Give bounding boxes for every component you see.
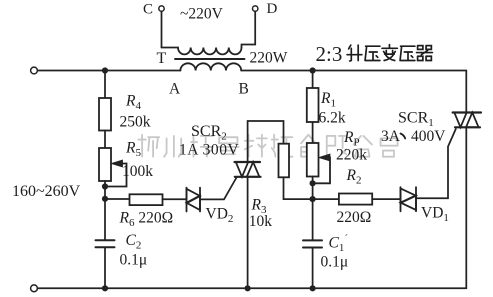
node dot R5 wiper junction	[102, 183, 108, 189]
triac SCR2	[235, 162, 261, 177]
triac SCR1	[453, 113, 481, 128]
resistor R3	[279, 144, 290, 178]
svg-text:R1: R1	[320, 90, 336, 110]
升	[347, 45, 362, 61]
wire: R1 top lead	[312, 71, 314, 89]
svg-text:R6 220Ω: R6 220Ω	[119, 210, 174, 230]
器	[417, 46, 433, 61]
diac VD1	[401, 187, 417, 211]
transformer secondary winding C-D (top)	[162, 48, 242, 55]
wire: R4 top lead	[104, 71, 106, 99]
potentiometer RP wiper arrow	[313, 154, 330, 183]
wire: SCR2 anode up and over to R3	[248, 121, 284, 162]
terminal D	[253, 6, 258, 11]
svg-text:~220V: ~220V	[180, 6, 224, 23]
wire: to R6	[105, 198, 130, 200]
resistor R2	[339, 194, 372, 205]
svg-text:VD2: VD2	[206, 206, 234, 226]
wire: RP bottom to C1	[312, 177, 314, 241]
wire: VD1 to SCR1 gate riser	[416, 129, 456, 198]
input terminal bottom-left	[31, 285, 38, 292]
svg-text:100k: 100k	[122, 163, 153, 180]
wire: bottom rail	[38, 287, 467, 289]
node dot junction R4 top	[102, 67, 108, 73]
resistor R4	[99, 98, 111, 131]
node dot SCR2 bottom rail	[245, 285, 251, 291]
变	[382, 45, 397, 61]
capacitor C2	[96, 240, 115, 247]
svg-text:250k: 250k	[120, 114, 151, 131]
svg-text:6.2k: 6.2k	[319, 110, 346, 127]
transformer core	[175, 58, 245, 60]
wire: C1 bottom lead	[312, 248, 314, 289]
svg-text:B: B	[239, 81, 249, 98]
resistor R1	[307, 88, 319, 122]
svg-text:D: D	[267, 1, 278, 17]
potentiometer R5 wiper arrow	[105, 160, 127, 186]
node dot RP wiper junction	[310, 180, 316, 186]
svg-text:C1´: C1´	[329, 233, 349, 254]
svg-text:VD1: VD1	[421, 205, 449, 225]
wire: node to R2	[313, 198, 339, 200]
svg-text:0.1μ: 0.1μ	[120, 252, 148, 269]
svg-text:400V: 400V	[411, 128, 446, 145]
svg-text:3A: 3A	[381, 128, 401, 145]
wire: R6 to VD2	[163, 198, 187, 200]
svg-text:A: A	[169, 81, 181, 98]
wire: R1-RP link	[312, 122, 314, 143]
svg-text:220Ω: 220Ω	[337, 209, 372, 226]
node dot C2 bottom rail	[102, 285, 108, 291]
node dot R6 branch	[102, 196, 108, 202]
svg-text:SCR2: SCR2	[191, 123, 227, 143]
resistor R6	[130, 194, 163, 205]
svg-text:160~260V: 160~260V	[12, 183, 81, 200]
svg-text:10k: 10k	[249, 213, 273, 230]
svg-text:R5: R5	[125, 140, 141, 160]
wire: R3 bottom to node	[284, 177, 313, 199]
input terminal top-left	[31, 67, 38, 74]
watermark 杭州将睿科技有限公司	[138, 135, 397, 157]
svg-text:1A 300V: 1A 300V	[179, 142, 240, 159]
svg-text:T: T	[157, 50, 167, 67]
wire: R5 bottom to C2	[104, 181, 106, 240]
svg-text:2:3: 2:3	[316, 42, 343, 66]
svg-text:R2: R2	[346, 167, 362, 187]
svg-text:C2: C2	[126, 232, 142, 252]
node dot main node	[310, 196, 316, 202]
svg-text:SCR1: SCR1	[398, 110, 434, 130]
capacitor C1	[303, 240, 322, 247]
wire: R4-R5 link	[104, 131, 106, 149]
transformer T primary winding A-B (bottom)	[180, 63, 241, 70]
wire: top rail from transformer B to SCR1 drop	[241, 71, 466, 113]
node dot R1 top	[310, 67, 316, 73]
压	[365, 46, 380, 60]
terminal C	[159, 6, 164, 11]
svg-text:220W: 220W	[250, 50, 288, 67]
wire: SCR1 cathode to bottom rail	[465, 127, 467, 288]
wire: SCR2 cathode to bottom rail	[247, 177, 249, 288]
压	[400, 46, 415, 60]
wire: C terminal lead	[161, 11, 163, 47]
wire: C2 bottom lead	[104, 247, 106, 288]
node dot C1 bottom rail	[310, 285, 316, 291]
potentiometer R5	[99, 148, 111, 181]
wire: VD2 to SCR2 gate	[200, 178, 237, 200]
potentiometer RP	[307, 143, 319, 177]
svg-text:0.1μ: 0.1μ	[321, 254, 349, 271]
wire: R2 to VD1	[372, 198, 400, 200]
wire: D terminal lead	[242, 11, 256, 47]
svg-text:220k: 220k	[336, 147, 367, 164]
diac VD2	[187, 188, 201, 212]
svg-text:C: C	[143, 2, 153, 18]
wire: top rail from left terminal to transformer	[38, 70, 181, 72]
svg-text:R4: R4	[125, 93, 141, 113]
